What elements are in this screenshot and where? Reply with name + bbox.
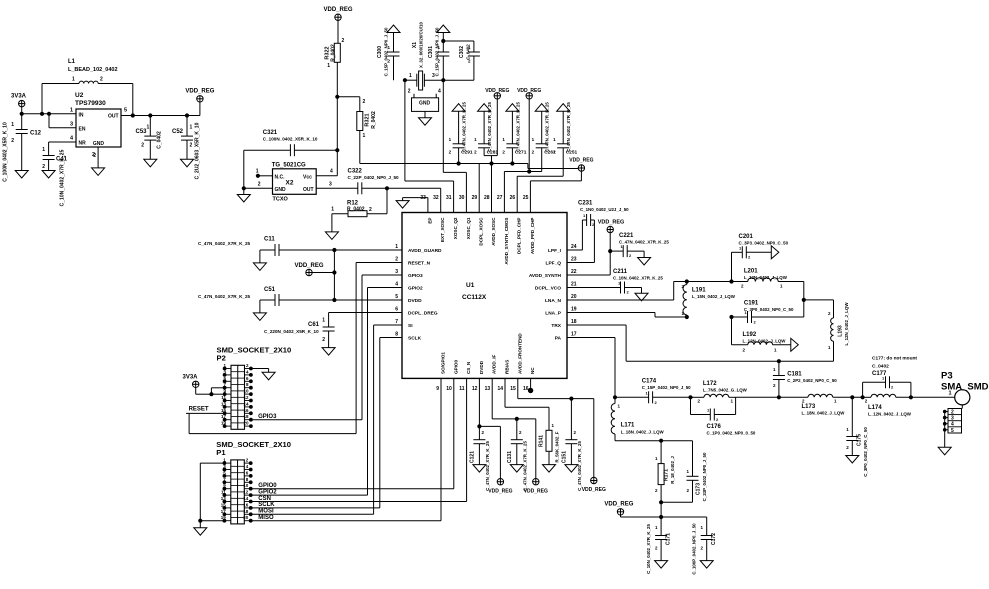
capacitor C322 <box>316 169 399 195</box>
svg-text:C53: C53 <box>136 129 148 135</box>
node VDD_REG <box>294 250 336 301</box>
svg-text:P3: P3 <box>941 371 953 382</box>
wire U2 EN <box>49 114 76 128</box>
svg-text:C_3P0_0402_NP0_C_50: C_3P0_0402_NP0_C_50 <box>863 427 868 477</box>
wire AVDD rail <box>360 164 578 169</box>
capacitor C271 <box>502 102 526 166</box>
svg-text:DVDD: DVDD <box>479 360 484 374</box>
inductor L191 <box>681 280 735 319</box>
svg-text:SCLK: SCLK <box>258 502 275 508</box>
node VDD_REG <box>185 89 214 116</box>
wire GPIO0 net <box>251 378 454 489</box>
capacitor C251 <box>553 102 577 177</box>
svg-text:GND: GND <box>419 101 431 107</box>
svg-text:31: 31 <box>446 195 452 201</box>
wire SCLK net <box>251 338 402 509</box>
svg-text:C175: C175 <box>857 434 863 446</box>
ground <box>42 171 55 179</box>
svg-text:DCPL_VCO: DCPL_VCO <box>535 286 561 292</box>
svg-text:VDD_REG: VDD_REG <box>582 487 606 493</box>
ground <box>325 232 338 240</box>
capacitor C12 <box>3 114 42 182</box>
ground <box>510 465 523 473</box>
svg-text:2: 2 <box>408 89 411 95</box>
connector P3 SMA_SMD <box>941 371 989 448</box>
svg-text:1: 1 <box>322 318 325 324</box>
svg-text:VDD_REG: VDD_REG <box>524 489 548 495</box>
svg-text:R_18_0402_J: R_18_0402_J <box>670 456 675 484</box>
svg-text:C177: C177 <box>872 371 887 377</box>
ground <box>700 561 713 569</box>
svg-text:19: 19 <box>221 515 227 520</box>
svg-text:C171: C171 <box>666 533 672 545</box>
wire LNA_N net <box>567 282 687 301</box>
svg-text:33: 33 <box>420 195 426 201</box>
capacitor C221 <box>610 233 669 258</box>
svg-text:SMD_SOCKET_2X10: SMD_SOCKET_2X10 <box>216 440 291 449</box>
svg-text:DCPL_XOSC: DCPL_XOSC <box>479 217 484 246</box>
capacitor C261 <box>532 102 556 172</box>
svg-text:L_18N_0402_J_LQW: L_18N_0402_J_LQW <box>802 411 846 416</box>
capacitor C181 <box>773 361 837 399</box>
svg-text:AVDD_PFD_CHP: AVDD_PFD_CHP <box>530 218 535 255</box>
svg-text:L191: L191 <box>692 288 706 294</box>
svg-text:C_47N_0402_X7R_K_25: C_47N_0402_X7R_K_25 <box>522 441 527 491</box>
node 3V3A <box>11 94 27 114</box>
ground <box>237 195 250 203</box>
capacitor C121 <box>470 378 501 491</box>
svg-text:13: 13 <box>485 386 491 392</box>
capacitor C177 <box>861 356 917 399</box>
capacitor C321 <box>244 130 339 188</box>
svg-text:1: 1 <box>70 108 73 114</box>
svg-text:13: 13 <box>221 401 227 406</box>
ground <box>638 258 651 266</box>
svg-text:2: 2 <box>369 207 372 213</box>
svg-text:18: 18 <box>571 319 577 325</box>
resistor R321 <box>357 97 377 164</box>
svg-text:24: 24 <box>571 244 577 250</box>
svg-text:3V3A: 3V3A <box>11 94 27 100</box>
svg-text:L192: L192 <box>743 332 757 338</box>
svg-text:TPS79930: TPS79930 <box>75 100 106 107</box>
ground <box>387 25 400 33</box>
svg-text:NR: NR <box>79 141 87 147</box>
svg-text:C_15P_0402_NP0_J_50: C_15P_0402_NP0_J_50 <box>435 27 440 76</box>
svg-text:C_47N_0402_X7R_K_25: C_47N_0402_X7R_K_25 <box>462 102 467 152</box>
svg-text:GND: GND <box>93 141 105 147</box>
svg-text:GPIO0: GPIO0 <box>453 360 458 374</box>
svg-text:17: 17 <box>571 332 577 338</box>
svg-text:1: 1 <box>395 244 398 250</box>
op-amp U1 CC112X <box>395 195 577 392</box>
svg-text:C_2P2_0402_NP0_C_50: C_2P2_0402_NP0_C_50 <box>787 378 837 383</box>
svg-text:C_0402: C_0402 <box>872 364 889 370</box>
svg-text:MISO: MISO <box>258 515 274 521</box>
node VDD_REG <box>567 220 624 276</box>
svg-text:C52: C52 <box>172 129 184 135</box>
ground <box>194 528 207 536</box>
svg-text:C_47N_0402_X7R_K_25: C_47N_0402_X7R_K_25 <box>515 102 520 152</box>
ground <box>655 561 668 569</box>
svg-text:18: 18 <box>243 414 249 419</box>
svg-text:DCPL_DREG: DCPL_DREG <box>408 311 438 317</box>
wire X2 pin2 GND <box>242 182 272 195</box>
svg-text:1: 1 <box>949 391 952 397</box>
svg-text:CC112X: CC112X <box>462 294 487 301</box>
svg-text:VDD_REG: VDD_REG <box>604 502 633 508</box>
svg-text:2: 2 <box>190 143 193 149</box>
node VDD_REG3 <box>569 158 593 172</box>
svg-text:L1: L1 <box>68 59 76 65</box>
svg-text:7: 7 <box>395 319 398 325</box>
node 3V3A <box>182 375 224 396</box>
svg-text:4: 4 <box>330 169 333 175</box>
svg-text:L_15N_0402_J_LQW: L_15N_0402_J_LQW <box>692 294 736 299</box>
svg-text:3: 3 <box>70 122 73 128</box>
node VDD_REG2 <box>517 88 541 173</box>
svg-text:1: 1 <box>42 147 45 153</box>
ground <box>565 465 578 473</box>
capacitor C201 <box>732 234 789 282</box>
svg-text:10: 10 <box>446 386 452 392</box>
svg-text:20: 20 <box>243 421 249 426</box>
ground <box>846 456 859 464</box>
svg-text:C_47N_0402_X7R_K_25: C_47N_0402_X7R_K_25 <box>577 441 582 491</box>
svg-text:11: 11 <box>459 386 465 392</box>
capacitor C191 <box>730 301 804 325</box>
capacitor C151 <box>518 378 594 491</box>
wire pin26 net <box>517 176 563 212</box>
svg-text:3: 3 <box>951 416 954 422</box>
wire P1 gnd net <box>199 463 225 528</box>
wire XOSC_Q2 net <box>405 80 454 212</box>
svg-text:29: 29 <box>472 195 478 201</box>
svg-text:C51: C51 <box>264 287 276 293</box>
capacitor C172 <box>692 517 718 575</box>
capacitor C300 <box>377 27 400 80</box>
capacitor C11 <box>198 237 402 263</box>
capacitor C173 <box>660 441 708 504</box>
svg-text:12: 12 <box>472 386 478 392</box>
svg-text:C_2U2_0603_X5R_K_10: C_2U2_0603_X5R_K_10 <box>195 122 201 179</box>
svg-text:C_15P_0402_NP0_J_50: C_15P_0402_NP0_J_50 <box>642 385 691 390</box>
ground <box>144 159 157 167</box>
svg-text:5: 5 <box>395 294 398 300</box>
svg-text:PA: PA <box>555 336 562 342</box>
ground <box>635 293 648 301</box>
svg-text:SO/GPIO1: SO/GPIO1 <box>441 352 446 374</box>
svg-text:17: 17 <box>221 509 227 514</box>
wire X2 pin4 Vcc <box>316 150 337 176</box>
node VDD_REG <box>582 477 606 493</box>
svg-text:C_47N_0402_X7R_K_25: C_47N_0402_X7R_K_25 <box>566 102 571 152</box>
svg-text:RESET_N: RESET_N <box>408 261 431 267</box>
svg-text:14: 14 <box>497 386 503 392</box>
svg-text:L_18N_0402_J_LQW: L_18N_0402_J_LQW <box>621 430 665 435</box>
svg-text:9: 9 <box>436 386 439 392</box>
svg-text:14: 14 <box>243 401 249 406</box>
svg-text:C131: C131 <box>507 451 513 463</box>
svg-text:IN: IN <box>79 113 84 119</box>
svg-text:TG_5021CG: TG_5021CG <box>272 163 306 169</box>
svg-text:C_1N0_0402_U2J_J_50: C_1N0_0402_U2J_J_50 <box>580 207 629 212</box>
capacitor C61 <box>264 313 402 348</box>
svg-text:20: 20 <box>571 294 577 300</box>
wire X2 pin1 N.C. <box>256 169 273 178</box>
svg-text:C172: C172 <box>711 533 717 545</box>
svg-text:C_22P_0402_NP0_J_50: C_22P_0402_NP0_J_50 <box>348 175 400 180</box>
svg-text:L174: L174 <box>868 405 882 411</box>
capacitor C52 <box>172 116 201 180</box>
svg-text:1: 1 <box>72 77 75 83</box>
svg-text:R_0402: R_0402 <box>331 44 337 62</box>
svg-text:3V3A: 3V3A <box>182 375 198 381</box>
svg-text:1: 1 <box>11 122 14 128</box>
svg-text:SMD_SOCKET_2X10: SMD_SOCKET_2X10 <box>217 345 292 354</box>
wire 3V3A rail <box>20 112 76 115</box>
svg-text:R_56K_0402_F: R_56K_0402_F <box>555 431 560 462</box>
svg-text:1: 1 <box>409 73 412 79</box>
svg-text:1: 1 <box>331 207 334 213</box>
svg-text:GPIO2: GPIO2 <box>258 489 277 495</box>
svg-text:DVDD: DVDD <box>408 298 422 304</box>
wire pin27 net <box>504 172 541 213</box>
svg-text:C_47N_0402_X7R_K_25: C_47N_0402_X7R_K_25 <box>198 294 251 299</box>
svg-text:C191: C191 <box>744 301 759 307</box>
svg-text:X_32_000/10/20/CU/10: X_32_000/10/20/CU/10 <box>418 22 423 68</box>
svg-text:2: 2 <box>100 77 103 83</box>
regulator U2 <box>70 92 127 158</box>
ground U2 GND <box>92 147 105 175</box>
svg-text:C322: C322 <box>348 169 363 175</box>
svg-text:OUT: OUT <box>108 114 119 120</box>
svg-text:CSN: CSN <box>258 496 271 502</box>
svg-text:15: 15 <box>510 386 516 392</box>
svg-text:C231: C231 <box>578 201 593 207</box>
svg-text:1: 1 <box>256 169 259 175</box>
svg-text:15: 15 <box>221 408 227 413</box>
svg-text:C_47N_0402_X7R_K_25: C_47N_0402_X7R_K_25 <box>545 102 550 152</box>
svg-text:1: 1 <box>190 125 193 131</box>
capacitor C171 <box>646 517 672 574</box>
svg-text:28: 28 <box>484 195 490 201</box>
inductor L172 <box>691 381 748 404</box>
capacitor C174 <box>615 379 692 406</box>
svg-text:EP: EP <box>427 218 432 224</box>
svg-text:R_0402: R_0402 <box>371 111 377 129</box>
svg-text:5: 5 <box>951 428 954 434</box>
ground <box>543 465 556 473</box>
svg-text:L193: L193 <box>838 325 844 337</box>
wire GPIO2 net <box>251 288 402 496</box>
wire EP net <box>403 198 428 213</box>
svg-text:L_7N5_0402_G_LQW: L_7N5_0402_G_LQW <box>703 388 748 393</box>
wire MOSI net <box>251 325 402 515</box>
svg-text:C321: C321 <box>263 130 278 136</box>
inductor L192 <box>732 317 791 353</box>
svg-text:16: 16 <box>243 502 249 507</box>
svg-text:L171: L171 <box>621 423 635 429</box>
svg-text:VDD_REG: VDD_REG <box>294 263 323 269</box>
svg-text:L201: L201 <box>744 269 758 275</box>
svg-text:TCXO: TCXO <box>273 197 289 203</box>
svg-text:X2: X2 <box>286 180 294 187</box>
node VDD_REG <box>524 479 548 495</box>
svg-text:12: 12 <box>243 490 249 495</box>
wire GPIO3 net <box>251 275 402 420</box>
svg-text:C300: C300 <box>377 46 383 58</box>
svg-text:L_12N_0402_J_LQW: L_12N_0402_J_LQW <box>868 412 912 417</box>
node VDD_REG <box>485 88 509 156</box>
svg-text:2: 2 <box>258 182 261 188</box>
svg-text:VDD_REG: VDD_REG <box>185 89 214 95</box>
resistor R141 <box>505 378 560 464</box>
svg-text:23: 23 <box>571 257 577 263</box>
svg-text:L_12N_0402_J_LQW: L_12N_0402_J_LQW <box>743 339 787 344</box>
svg-text:C_47N_0402_X7R_K_25: C_47N_0402_X7R_K_25 <box>487 102 492 152</box>
svg-text:L172: L172 <box>703 381 717 387</box>
svg-text:C211: C211 <box>613 269 628 275</box>
svg-text:TRX: TRX <box>551 323 561 329</box>
svg-text:L173: L173 <box>802 404 816 410</box>
svg-text:U2: U2 <box>75 92 84 99</box>
svg-text:GPIO2: GPIO2 <box>408 286 423 292</box>
svg-text:AVDD_XOSC: AVDD_XOSC <box>491 217 496 246</box>
svg-text:L_BEAD_102_0402: L_BEAD_102_0402 <box>68 67 118 73</box>
wire RF rail2 <box>833 396 863 399</box>
ground <box>396 201 409 209</box>
svg-text:RBIAS: RBIAS <box>505 360 510 374</box>
svg-text:13: 13 <box>221 496 227 501</box>
resistor R171 <box>655 441 675 503</box>
svg-text:C_220N_0402_X5R_K_10: C_220N_0402_X5R_K_10 <box>264 329 319 334</box>
svg-text:XOSC_Q2: XOSC_Q2 <box>453 217 458 239</box>
wire MISO net <box>251 378 441 521</box>
svg-text:C11: C11 <box>264 237 275 243</box>
resistor R12 <box>331 188 387 232</box>
inductor L174 <box>863 394 955 416</box>
svg-text:L_12N_0402_J_LQW: L_12N_0402_J_LQW <box>844 302 849 346</box>
svg-text:C_47N_0402_X7R_K_25: C_47N_0402_X7R_K_25 <box>485 441 490 491</box>
capacitor C176 <box>691 397 756 435</box>
svg-text:11: 11 <box>221 395 226 400</box>
svg-text:LNA_N: LNA_N <box>545 298 562 304</box>
node VDD_REG <box>604 502 706 519</box>
svg-text:2: 2 <box>322 337 325 343</box>
crystal X1 <box>403 22 445 90</box>
svg-text:22: 22 <box>571 269 577 275</box>
svg-text:14: 14 <box>243 496 249 501</box>
svg-text:C_100P_0402_NP0_J_50: C_100P_0402_NP0_J_50 <box>692 523 697 575</box>
capacitor C131 <box>492 378 536 491</box>
capacitor C41 <box>42 142 76 206</box>
wire AVDD_XOSC pin28 <box>491 164 493 213</box>
svg-text:27: 27 <box>497 195 503 201</box>
svg-text:C_15P_0402_NP0_J_50: C_15P_0402_NP0_J_50 <box>384 27 389 76</box>
svg-text:C_1P0_0402_NP0_0_50: C_1P0_0402_NP0_0_50 <box>707 431 756 436</box>
resistor R322 <box>325 38 345 97</box>
svg-text:C_100N_0402_X5R_K_10: C_100N_0402_X5R_K_10 <box>263 137 318 142</box>
svg-text:R_0402: R_0402 <box>347 206 365 212</box>
svg-text:3: 3 <box>432 73 435 79</box>
svg-text:C176: C176 <box>707 424 722 430</box>
wire PA net <box>567 338 617 399</box>
svg-text:GND: GND <box>275 187 287 193</box>
svg-text:GPIO3: GPIO3 <box>258 414 277 420</box>
ground <box>938 447 951 455</box>
ground <box>791 338 799 351</box>
svg-text:R141: R141 <box>539 435 545 447</box>
svg-text:U1: U1 <box>466 282 475 289</box>
svg-text:X1: X1 <box>412 42 418 48</box>
ground <box>322 348 335 356</box>
svg-text:21: 21 <box>571 282 577 288</box>
capacitor C231 <box>567 201 629 263</box>
svg-text:RESET: RESET <box>189 407 209 413</box>
svg-text:C201: C201 <box>739 234 754 240</box>
svg-text:EN: EN <box>79 127 86 133</box>
svg-text:R321: R321 <box>365 113 371 126</box>
svg-text:C_3P3_0402_NP0_C_50: C_3P3_0402_NP0_C_50 <box>739 241 789 246</box>
ground <box>473 465 486 473</box>
ground <box>262 372 275 380</box>
ground <box>15 171 28 179</box>
svg-text:16: 16 <box>243 408 249 413</box>
wire balun top rail <box>687 280 748 283</box>
ground <box>771 246 779 259</box>
svg-text:11: 11 <box>221 490 226 495</box>
ground <box>253 313 266 321</box>
svg-text:15: 15 <box>221 502 227 507</box>
svg-text:2: 2 <box>11 138 14 144</box>
svg-text:C_10N_0402_X7R_K_25: C_10N_0402_X7R_K_25 <box>646 524 651 574</box>
svg-text:26: 26 <box>510 195 516 201</box>
svg-text:18: 18 <box>243 509 249 514</box>
ferrite bead L1 <box>42 59 133 116</box>
svg-text:2: 2 <box>42 164 45 170</box>
svg-text:NC: NC <box>530 367 535 374</box>
svg-text:VDD_REG: VDD_REG <box>488 489 512 495</box>
svg-text:5: 5 <box>124 108 127 114</box>
svg-text:C_47N_0402_X7R_K_25: C_47N_0402_X7R_K_25 <box>619 240 669 245</box>
svg-text:2: 2 <box>363 99 366 105</box>
svg-text:SCLK: SCLK <box>408 336 422 342</box>
svg-text:AVDD_FRONTEND: AVDD_FRONTEND <box>517 333 522 374</box>
ground <box>437 25 450 33</box>
svg-text:1: 1 <box>147 125 150 131</box>
svg-text:C_10N_0402_X7R_K_25: C_10N_0402_X7R_K_25 <box>60 149 66 206</box>
svg-text:2: 2 <box>342 38 345 44</box>
wire RF rail1 <box>736 396 808 398</box>
svg-text:C151: C151 <box>562 451 568 463</box>
svg-text:4: 4 <box>951 422 954 428</box>
svg-text:32: 32 <box>433 195 439 201</box>
svg-text:6: 6 <box>395 307 398 313</box>
svg-text:2: 2 <box>395 257 398 263</box>
wire R322 node <box>336 95 360 150</box>
inductor L201 <box>741 269 804 289</box>
wire pin16 NC stub <box>528 378 532 392</box>
svg-text:P1: P1 <box>216 448 226 457</box>
svg-text:GPIO3: GPIO3 <box>408 273 423 279</box>
ground block X1 GND <box>408 89 441 126</box>
inductor L193 <box>828 300 849 361</box>
svg-text:C121: C121 <box>470 451 476 463</box>
svg-text:2: 2 <box>93 153 96 159</box>
wire balun right leg <box>802 282 833 318</box>
svg-text:1: 1 <box>327 63 330 69</box>
